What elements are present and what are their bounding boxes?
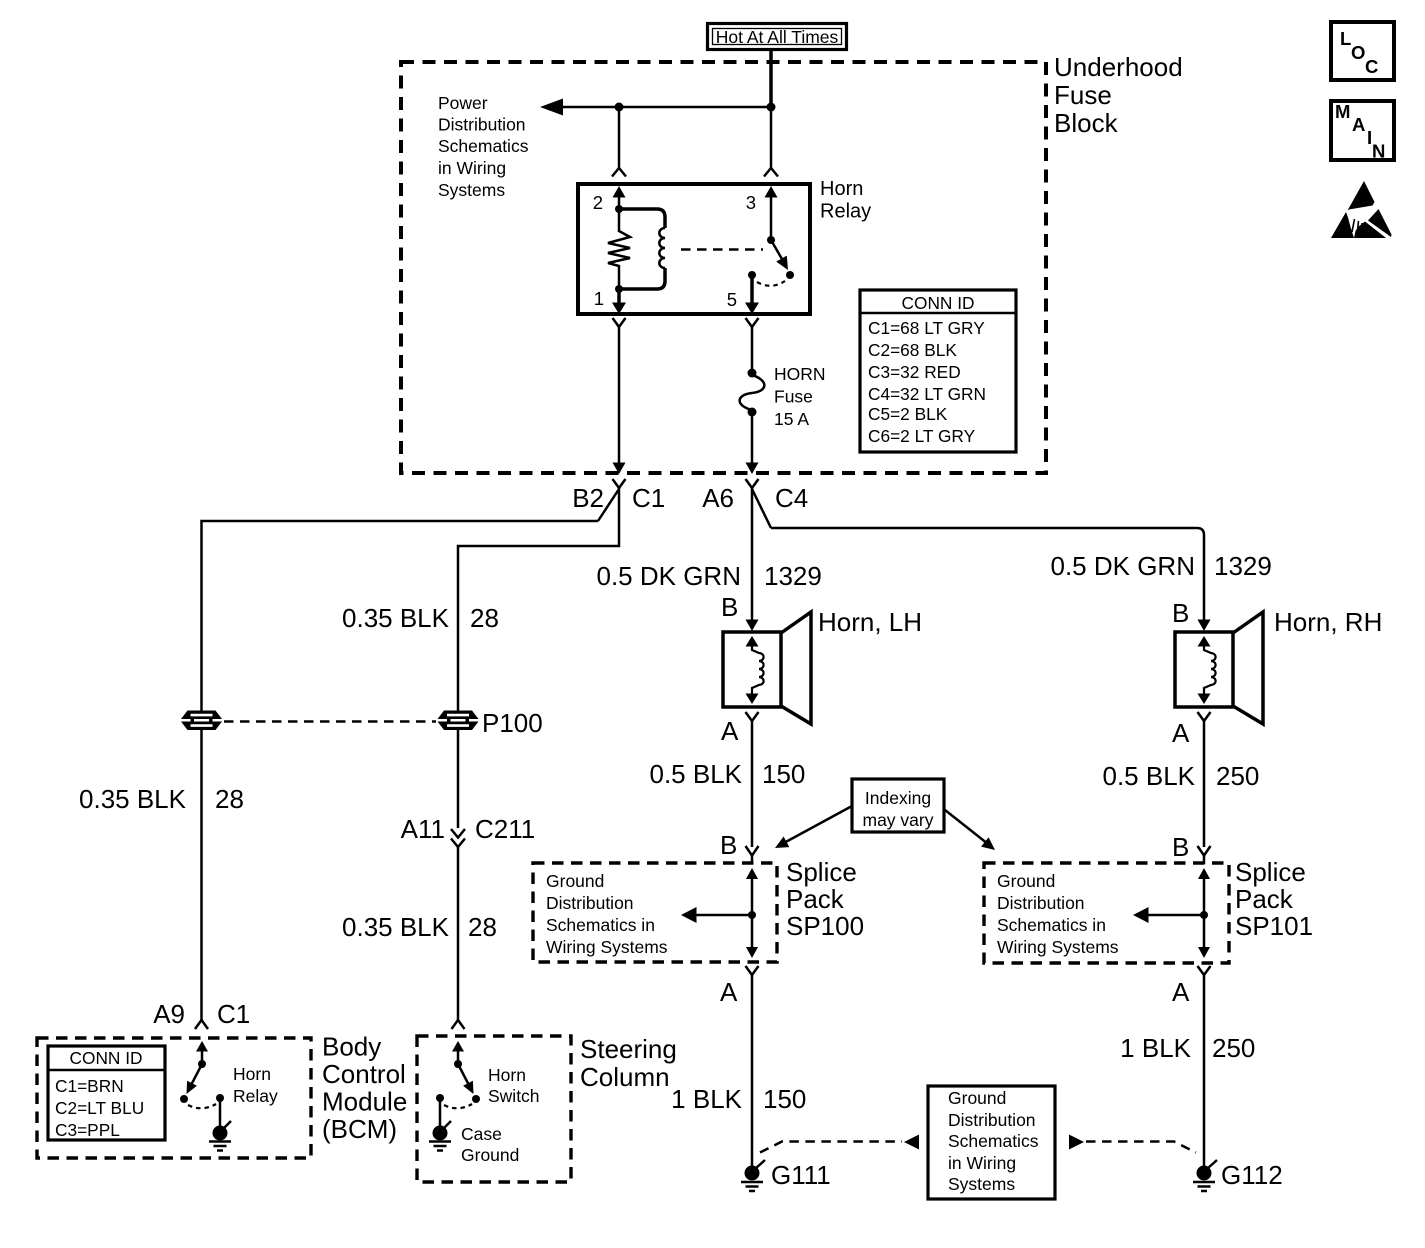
svg-text:Control: Control	[322, 1059, 406, 1089]
svg-text:0.35 BLK: 0.35 BLK	[342, 912, 450, 942]
svg-text:C2=LT BLU: C2=LT BLU	[55, 1098, 144, 1118]
svg-text:Distribution: Distribution	[438, 115, 526, 135]
svg-text:Distribution: Distribution	[997, 893, 1085, 913]
svg-text:B: B	[720, 830, 737, 860]
svg-text:B: B	[721, 592, 738, 622]
svg-text:Block: Block	[1054, 108, 1119, 138]
svg-text:28: 28	[470, 603, 499, 633]
svg-text:Switch: Switch	[488, 1086, 540, 1106]
svg-text:1329: 1329	[764, 561, 822, 591]
svg-text:Horn, RH: Horn, RH	[1274, 607, 1382, 637]
svg-text:Indexing: Indexing	[865, 788, 931, 808]
svg-text:Horn: Horn	[820, 178, 863, 200]
svg-text:250: 250	[1216, 761, 1259, 791]
svg-text:B: B	[1172, 832, 1189, 862]
svg-text:SP100: SP100	[786, 911, 864, 941]
svg-text:Pack: Pack	[786, 884, 845, 914]
svg-text:B2: B2	[572, 483, 604, 513]
svg-text:15 A: 15 A	[774, 409, 809, 429]
svg-text:5: 5	[727, 289, 737, 310]
svg-text:Schematics: Schematics	[948, 1131, 1039, 1151]
svg-text:Underhood: Underhood	[1054, 52, 1183, 82]
svg-text:Distribution: Distribution	[546, 893, 634, 913]
svg-text:2: 2	[593, 192, 603, 213]
svg-text:in Wiring: in Wiring	[438, 158, 506, 178]
svg-text:A6: A6	[702, 483, 734, 513]
svg-text:150: 150	[762, 759, 805, 789]
svg-text:HORN: HORN	[774, 364, 826, 384]
svg-text:Wiring Systems: Wiring Systems	[997, 937, 1119, 957]
svg-text:SP101: SP101	[1235, 911, 1313, 941]
svg-text:Ground: Ground	[461, 1145, 519, 1165]
svg-text:C5=2 BLK: C5=2 BLK	[868, 404, 948, 424]
svg-text:Splice: Splice	[786, 857, 857, 887]
svg-text:CONN ID: CONN ID	[902, 293, 975, 313]
svg-text:may vary: may vary	[863, 810, 934, 830]
svg-text:C3=PPL: C3=PPL	[55, 1120, 120, 1140]
svg-text:Fuse: Fuse	[774, 387, 813, 407]
svg-text:C2=68 BLK: C2=68 BLK	[868, 340, 957, 360]
svg-text:0.5 DK GRN: 0.5 DK GRN	[597, 561, 742, 591]
svg-text:0.5 BLK: 0.5 BLK	[1102, 761, 1195, 791]
svg-text:0.5 BLK: 0.5 BLK	[649, 759, 742, 789]
svg-text:C211: C211	[475, 814, 535, 844]
svg-text:Relay: Relay	[233, 1086, 278, 1106]
svg-text:Horn: Horn	[233, 1064, 271, 1084]
svg-text:0.35 BLK: 0.35 BLK	[342, 603, 450, 633]
svg-text:C1=68 LT GRY: C1=68 LT GRY	[868, 318, 985, 338]
svg-text:Relay: Relay	[820, 201, 871, 223]
svg-text:A9: A9	[153, 999, 185, 1029]
svg-text:Steering: Steering	[580, 1034, 677, 1064]
svg-text:C3=32 RED: C3=32 RED	[868, 362, 961, 382]
svg-text:Splice: Splice	[1235, 857, 1306, 887]
svg-text:C1=BRN: C1=BRN	[55, 1076, 124, 1096]
svg-text:Ground: Ground	[948, 1088, 1006, 1108]
svg-text:G112: G112	[1221, 1160, 1283, 1190]
svg-text:A: A	[1352, 114, 1365, 135]
svg-text:L: L	[1340, 28, 1351, 49]
svg-text:G111: G111	[771, 1160, 831, 1190]
svg-text:0.5 DK GRN: 0.5 DK GRN	[1051, 551, 1196, 581]
svg-text:Schematics in: Schematics in	[546, 915, 655, 935]
svg-text:Hot At All Times: Hot At All Times	[716, 27, 839, 47]
svg-text:Power: Power	[438, 93, 488, 113]
svg-text:A11: A11	[401, 814, 445, 844]
svg-text:Case: Case	[461, 1124, 502, 1144]
svg-text:N: N	[1372, 141, 1385, 162]
svg-text:P100: P100	[482, 708, 543, 738]
svg-text:C1: C1	[632, 483, 665, 513]
svg-text:Fuse: Fuse	[1054, 80, 1112, 110]
svg-text:250: 250	[1212, 1033, 1255, 1063]
svg-text:O: O	[1351, 42, 1365, 63]
svg-text:C4=32 LT GRN: C4=32 LT GRN	[868, 384, 986, 404]
svg-text:in Wiring: in Wiring	[948, 1153, 1016, 1173]
svg-text:M: M	[1335, 101, 1350, 122]
svg-text:28: 28	[215, 784, 244, 814]
svg-text:A: A	[721, 716, 739, 746]
svg-text:CONN ID: CONN ID	[70, 1048, 143, 1068]
svg-text:C6=2 LT GRY: C6=2 LT GRY	[868, 426, 976, 446]
svg-text:Schematics: Schematics	[438, 136, 529, 156]
svg-text:A: A	[1172, 977, 1190, 1007]
svg-text:Schematics in: Schematics in	[997, 915, 1106, 935]
svg-text:1: 1	[594, 288, 604, 309]
svg-text:Horn, LH: Horn, LH	[818, 607, 922, 637]
svg-text:150: 150	[763, 1084, 806, 1114]
svg-text:Body: Body	[322, 1032, 381, 1062]
svg-text:C4: C4	[775, 483, 808, 513]
svg-text:Wiring Systems: Wiring Systems	[546, 937, 668, 957]
svg-text:C: C	[1365, 56, 1378, 77]
svg-text:1329: 1329	[1214, 551, 1272, 581]
svg-text:Systems: Systems	[438, 180, 505, 200]
svg-text:Column: Column	[580, 1062, 670, 1092]
svg-text:Distribution: Distribution	[948, 1110, 1036, 1130]
svg-text:3: 3	[746, 192, 756, 213]
svg-text:1 BLK: 1 BLK	[671, 1084, 742, 1114]
svg-text:1 BLK: 1 BLK	[1120, 1033, 1191, 1063]
svg-text:28: 28	[468, 912, 497, 942]
svg-text:(BCM): (BCM)	[322, 1114, 397, 1144]
svg-text:Ground: Ground	[546, 871, 604, 891]
svg-text:A: A	[720, 977, 738, 1007]
svg-text:Horn: Horn	[488, 1065, 526, 1085]
svg-text:Pack: Pack	[1235, 884, 1294, 914]
svg-text:Systems: Systems	[948, 1174, 1015, 1194]
svg-text:A: A	[1172, 718, 1190, 748]
svg-text:Module: Module	[322, 1087, 407, 1117]
svg-text:C1: C1	[217, 999, 250, 1029]
svg-text:0.35 BLK: 0.35 BLK	[79, 784, 187, 814]
svg-text:B: B	[1172, 598, 1189, 628]
svg-text:Ground: Ground	[997, 871, 1055, 891]
